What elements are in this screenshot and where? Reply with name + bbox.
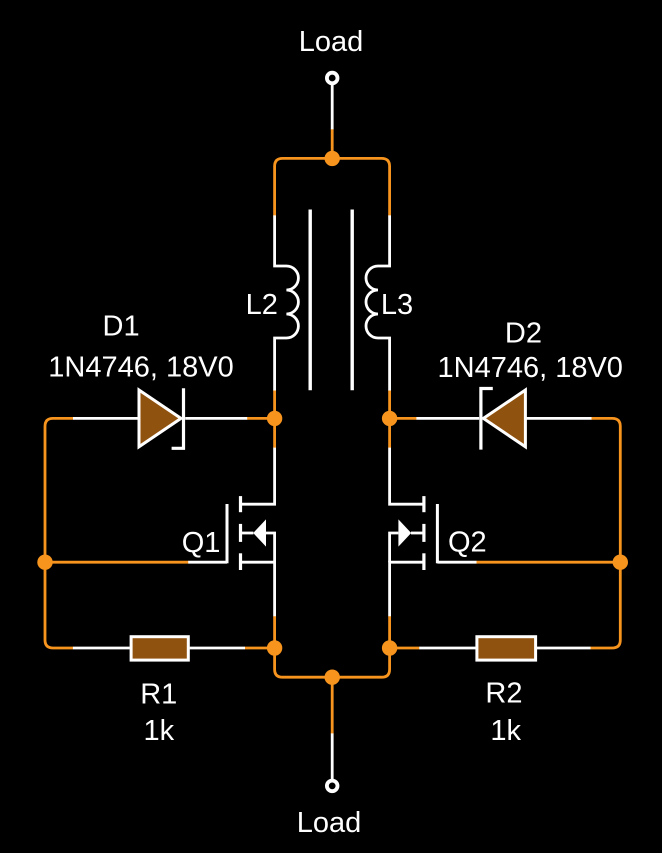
- terminal top load: [327, 73, 338, 84]
- svg-text:L2: L2: [246, 289, 278, 321]
- transformer core line left: [309, 210, 312, 391]
- node top junction: [325, 151, 340, 166]
- transistor Q2 source lead: [390, 562, 424, 616]
- wire Q2 gate pin: [437, 561, 476, 564]
- wire bottom load net: [331, 677, 334, 734]
- transistor Q2 channel bar top: [422, 496, 425, 512]
- wire right rail net: [590, 418, 620, 648]
- transistor Q2 channel bar bottom: [422, 553, 425, 570]
- svg-text:Load: Load: [299, 26, 364, 58]
- transistor Q1 gate bar: [226, 504, 229, 563]
- diode D2 cathode bar: [481, 389, 493, 450]
- transistor Q1 body line: [241, 532, 254, 535]
- wire bottom rectangle net: [275, 648, 390, 677]
- svg-text:L3: L3: [381, 289, 413, 321]
- wire R2 left pin: [419, 647, 475, 650]
- node bottom junction: [325, 670, 340, 685]
- wire R1 right pin: [190, 647, 245, 650]
- wire right source stub: [388, 616, 391, 648]
- transistor Q1 source lead: [241, 562, 275, 616]
- node right drain junction: [382, 411, 397, 426]
- diode D1 cathode bar: [172, 388, 184, 448]
- svg-text:Q2: Q2: [448, 527, 487, 559]
- wire Q1 gate pin: [188, 561, 227, 564]
- wire R2 left stub: [390, 647, 420, 650]
- transistor Q2 body arrow: [398, 519, 411, 546]
- wire D2 anode pin: [525, 417, 591, 420]
- wire R1 left pin: [73, 647, 130, 650]
- transistor Q1 drain lead: [241, 448, 275, 505]
- inductor L3: [366, 215, 390, 390]
- wire left drain net horizontal: [247, 417, 275, 420]
- svg-text:D2: D2: [505, 318, 542, 350]
- wire top rectangle net: [275, 158, 390, 216]
- transistor Q1 body arrow: [253, 519, 266, 546]
- transistor Q1 channel bar bottom: [239, 553, 242, 570]
- wire left drain net vertical: [273, 390, 276, 448]
- wire top load net: [331, 129, 334, 159]
- wire right drain net vertical: [388, 390, 391, 448]
- svg-text:R2: R2: [485, 678, 522, 710]
- wire bottom load pin: [331, 733, 334, 779]
- transformer core line right: [351, 210, 354, 391]
- node left source junction: [267, 640, 282, 655]
- wire R2 right pin: [537, 647, 591, 650]
- node left drain junction: [267, 411, 282, 426]
- resistor R1: [131, 637, 188, 660]
- svg-text:1N4746, 18V0: 1N4746, 18V0: [48, 352, 233, 384]
- wire left rail net: [45, 418, 73, 648]
- transistor Q1 channel bar middle: [239, 524, 242, 542]
- node right rail junction: [613, 555, 628, 570]
- wire right drain net horizontal: [390, 417, 417, 420]
- node right source junction: [382, 640, 397, 655]
- transistor Q1 body-source link: [266, 533, 275, 562]
- svg-text:R1: R1: [140, 678, 177, 710]
- wire D1 cathode pin: [185, 417, 247, 420]
- wire top load pin: [331, 85, 334, 130]
- wire R1 right stub: [245, 647, 275, 650]
- diode D1 triangle: [139, 390, 181, 447]
- svg-text:D1: D1: [103, 311, 140, 343]
- transistor Q2 gate bar: [436, 504, 439, 563]
- transistor Q1 channel bar top: [239, 496, 242, 512]
- svg-text:Q1: Q1: [182, 527, 221, 559]
- wire right gate stub: [476, 561, 620, 564]
- wire left source stub: [273, 616, 276, 648]
- transistor Q2 drain lead: [390, 448, 424, 505]
- wire D1 anode pin: [73, 417, 138, 420]
- svg-text:1k: 1k: [144, 715, 175, 747]
- terminal bottom load: [327, 781, 338, 792]
- svg-text:1k: 1k: [490, 715, 521, 747]
- transistor Q2 channel bar middle: [422, 524, 425, 542]
- transistor Q2 body line: [411, 532, 424, 535]
- svg-text:1N4746, 18V0: 1N4746, 18V0: [438, 352, 623, 384]
- wire left gate stub: [45, 561, 189, 564]
- resistor R2: [477, 637, 536, 660]
- inductor L2: [275, 215, 299, 390]
- node left rail junction: [37, 555, 52, 570]
- wire D2 cathode pin: [416, 417, 479, 420]
- svg-text:Load: Load: [297, 807, 362, 839]
- diode D2 triangle: [483, 390, 525, 447]
- transistor Q2 body-source link: [390, 533, 399, 562]
